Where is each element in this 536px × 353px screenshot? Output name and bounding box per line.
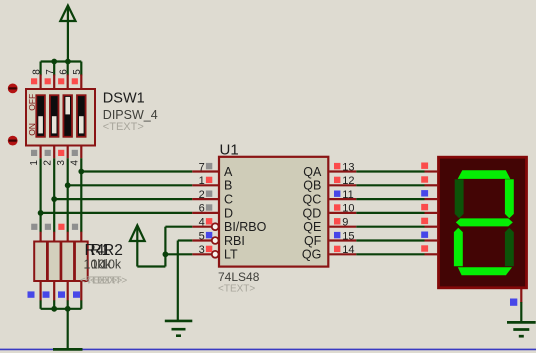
wire net QG to display: [356, 253, 424, 255]
svg-text:7: 7: [45, 69, 56, 75]
svg-text:A: A: [224, 165, 233, 179]
display pin stubs: [425, 172, 439, 255]
wire net QD to display: [356, 212, 424, 214]
svg-text:6: 6: [199, 203, 205, 215]
svg-text:LT: LT: [224, 248, 238, 262]
U1 left pin stubs: [192, 172, 218, 255]
svg-text:QE: QE: [303, 220, 321, 234]
svg-text:3: 3: [56, 160, 67, 166]
ground symbol bottom-left: [53, 348, 83, 351]
junction node D: [38, 210, 44, 216]
svg-text:5: 5: [199, 230, 205, 242]
junction node C: [51, 196, 57, 202]
wire column from DSW1 pin 1 down to R network: [39, 158, 41, 232]
resistor R4 (10k): [75, 232, 88, 301]
wire net A to U1 pin A: [81, 170, 192, 172]
svg-text:<TEXT>: <TEXT>: [103, 121, 144, 133]
U1 right pin state squares: [334, 163, 340, 252]
display pin state squares: [421, 163, 428, 252]
wire net B to U1 pin B: [68, 184, 193, 186]
DSW1 bottom pin state squares: [31, 150, 78, 156]
wire net C to U1 pin C: [54, 198, 192, 200]
svg-text:8: 8: [31, 69, 42, 75]
svg-text:4: 4: [199, 217, 205, 229]
ground symbol bottom-right: [507, 322, 536, 336]
wire column from DSW1 pin 2: [53, 158, 55, 232]
wire VCC to LT/BI net: [137, 227, 192, 267]
svg-text:QD: QD: [303, 206, 322, 220]
svg-text:DSW1: DSW1: [103, 91, 145, 107]
wire net QA to display: [356, 170, 424, 172]
svg-text:QG: QG: [302, 248, 321, 262]
U1 inversion bubble pin 4 BI/RBO: [212, 223, 219, 230]
svg-text:74LS48: 74LS48: [218, 270, 260, 284]
wire RBI to ground: [178, 241, 193, 322]
DSW1 bottom pin numbers 1 2 3 4: [29, 160, 81, 166]
wire display common to ground: [520, 302, 522, 322]
wire net QC to display: [356, 198, 424, 200]
resistor bottom state squares (blue): [28, 291, 81, 297]
display common pin stub: [520, 289, 522, 303]
svg-text:B: B: [224, 179, 232, 193]
svg-text:9: 9: [342, 217, 348, 229]
svg-text:U1: U1: [220, 141, 239, 158]
junction at LT wire: [163, 251, 169, 257]
svg-text:QC: QC: [303, 193, 322, 207]
svg-text:6: 6: [59, 69, 70, 75]
wire top bus to DSW1 pins 8,7,6,5: [41, 62, 82, 76]
svg-text:BI/RBO: BI/RBO: [224, 220, 267, 234]
U1 left pin names: [224, 165, 267, 262]
DSW1 actuator button down: [8, 136, 18, 146]
svg-text:RBI: RBI: [224, 234, 245, 248]
resistor R2 (10k): [48, 232, 61, 301]
U1 right pin names: [302, 165, 322, 262]
segment f (off): [455, 179, 464, 218]
segment a (lit): [458, 170, 511, 179]
svg-text:5: 5: [72, 69, 83, 75]
svg-text:7: 7: [199, 161, 205, 173]
svg-text:<TEXT>: <TEXT>: [90, 275, 127, 286]
wire column from DSW1 pin 3: [67, 158, 69, 232]
wire net QB to display: [356, 184, 424, 186]
svg-text:ON: ON: [27, 123, 37, 136]
DSW1 bottom pin stubs 1,2,3,4: [41, 145, 82, 158]
svg-text:QB: QB: [303, 179, 321, 193]
wire net D to U1 pin D: [41, 212, 193, 214]
svg-text:2: 2: [199, 189, 205, 201]
wire net QE to display: [356, 226, 424, 228]
labels resistor TEXT placeholders (overlapping): [80, 275, 127, 286]
blue border line at bottom: [0, 348, 536, 350]
svg-text:15: 15: [342, 230, 354, 242]
svg-text:D: D: [224, 206, 233, 220]
labels 10k values (overlapping): [84, 258, 122, 272]
power symbol VCC (middle): [130, 225, 145, 266]
svg-text:OFF: OFF: [27, 94, 37, 111]
svg-text:1: 1: [199, 175, 205, 187]
svg-text:11: 11: [342, 189, 353, 201]
svg-text:10: 10: [342, 203, 354, 215]
wire net QF to display: [356, 239, 424, 241]
display common state square (blue): [510, 299, 517, 306]
junction ground bus at R2: [51, 306, 57, 312]
svg-text:14: 14: [342, 244, 354, 256]
segment d (lit): [458, 267, 512, 275]
svg-text:1: 1: [29, 160, 40, 166]
DSW1 actuator button up: [8, 84, 18, 94]
power symbol VCC (top): [60, 6, 75, 62]
junction node B: [65, 182, 71, 188]
svg-text:12: 12: [342, 175, 354, 187]
labels R1 R2 R3 R4 (overlapping): [85, 242, 123, 259]
svg-text:4: 4: [70, 160, 81, 166]
DSW1 top pin stubs 8,7,6,5: [41, 75, 82, 91]
wire column from DSW1 pin 4: [80, 158, 82, 232]
junction node A: [78, 169, 84, 175]
svg-text:C: C: [224, 193, 233, 207]
U1 left pin numbers: [199, 161, 205, 256]
svg-text:13: 13: [342, 161, 354, 173]
DIP switch DSW1 body: [26, 89, 95, 146]
op 74LS48 U1 body: [219, 157, 328, 267]
svg-text:<TEXT>: <TEXT>: [218, 283, 255, 294]
junction top bus at pin 7: [51, 59, 57, 65]
DSW1 top pin numbers 8 7 6 5: [31, 69, 83, 75]
U1 right pin numbers: [342, 161, 354, 256]
svg-text:QA: QA: [303, 165, 322, 179]
7-segment display body: [439, 157, 527, 288]
segment g (lit): [456, 218, 513, 226]
wire ground bus down to ground: [67, 309, 69, 350]
ground symbol middle: [165, 321, 193, 336]
segment e (lit): [454, 228, 463, 267]
junction top bus at pin 6: [65, 59, 71, 65]
resistor network top state squares: [31, 224, 78, 230]
segment c (off): [505, 228, 514, 267]
svg-text:QF: QF: [304, 234, 322, 248]
junction ground bus at R3: [65, 306, 71, 312]
U1 left pin state squares: [206, 163, 212, 252]
segment b (lit): [505, 179, 514, 218]
U1 inversion bubble pin 3 LT: [212, 251, 219, 258]
svg-text:3: 3: [199, 244, 205, 256]
svg-text:2: 2: [42, 160, 53, 166]
resistor R3 (10k): [61, 232, 74, 301]
resistor R1 (10k): [34, 232, 47, 301]
U1 inversion bubble pin 5 RBI: [212, 237, 219, 244]
DSW1 top pin state squares (red): [31, 78, 78, 84]
U1 right pin stubs: [329, 172, 356, 255]
svg-text:10k: 10k: [101, 258, 122, 272]
wires resistor bottoms to ground bus: [41, 300, 82, 309]
